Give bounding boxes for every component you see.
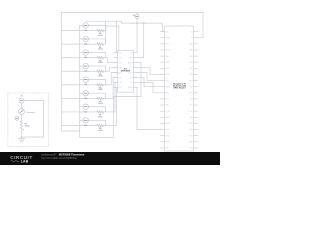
pin 3 SDA1 of J8: [161, 36, 170, 39]
pin 27 ID_SD of J8: [161, 111, 171, 113]
pin 1 3.3V of J8: [161, 31, 169, 33]
label TH3 value: [84, 57, 87, 59]
thermistor RT1: [19, 109, 25, 115]
pin 35 GP19 of J8: [161, 135, 170, 137]
pin 22 GP25 of J8: [189, 93, 198, 95]
wire CH2 tap: [106, 58, 118, 63]
wire rung rail to resistor R2: [62, 43, 98, 45]
wire node R4 to thermistor branch: [88, 66, 105, 71]
pin 30 GND of J8: [189, 117, 197, 119]
svg-text:GPIO Header: GPIO Header: [173, 87, 186, 89]
label R4: [98, 74, 103, 78]
resistor R7: [97, 111, 103, 113]
wire CH1 tap over the top: [106, 26, 119, 58]
pin 3 CH2 of IC1: [114, 62, 122, 64]
svg-text:10 kΩ: 10 kΩ: [98, 89, 103, 91]
pin 5 CH4 of IC1: [114, 72, 122, 74]
label TH1 value: [84, 30, 87, 32]
wire 3.3V top bus: [62, 13, 204, 38]
node junction 3.3V/VREF: [136, 22, 144, 23]
node footer bar: [0, 152, 220, 165]
pin 29 GPIO5 of J8: [161, 117, 171, 119]
wire CH6 tap: [106, 82, 118, 112]
wire R9 to ground: [21, 130, 23, 139]
label Thermistor 1: [26, 111, 36, 114]
pin 8 CH7 of IC1: [114, 87, 122, 89]
pin 13 GP27 of J8: [161, 68, 170, 70]
pin 9 GND of J8: [161, 56, 170, 58]
pin 26 CE1 of J8: [190, 105, 198, 107]
wire rung rail to resistor R7: [62, 111, 98, 113]
pin 31 GPIO6 of J8: [161, 123, 171, 125]
svg-text:10k: 10k: [84, 44, 87, 46]
wire RT1 to R9: [21, 115, 23, 122]
pin 8 TXD of J8: [190, 50, 198, 52]
wire V2 to RT1: [21, 103, 23, 109]
thermistor TH5 channel 4: [83, 77, 89, 83]
pin 28 ID_SC of J8: [188, 111, 197, 113]
wire thermistor TH2 to rail: [80, 38, 83, 40]
pin 4 CH3 of IC1: [114, 67, 122, 69]
svg-text:10k: 10k: [84, 125, 87, 127]
pin 7 CH6 of IC1: [114, 82, 122, 84]
pin 16 GP23 of J8: [189, 74, 198, 76]
wire DGND to header ground: [137, 87, 161, 129]
svg-text:MCP3008: MCP3008: [121, 70, 131, 72]
wire thermistor TH1 to rail: [80, 24, 83, 26]
svg-text:10 kΩ: 10 kΩ: [98, 76, 103, 78]
resistor R2: [97, 43, 103, 45]
svg-text:10k: 10k: [84, 111, 87, 113]
label R6: [98, 101, 103, 105]
resistor R9: [20, 121, 24, 130]
pin 32 GP12 of J8: [189, 123, 198, 125]
pin 21 MISO of J8: [161, 93, 171, 95]
svg-text:10k: 10k: [84, 84, 87, 86]
pin 15 GP22 of J8: [161, 74, 170, 76]
wire CH4 tap: [106, 73, 118, 85]
label TH5 value: [84, 84, 87, 86]
pin 15 VREF of IC1: [128, 57, 137, 59]
pin 25 GND of J8: [161, 105, 170, 107]
pin 10 RXD of J8: [189, 56, 197, 58]
pin 14 AGND of IC1: [128, 61, 137, 64]
svg-text:10 kΩ: 10 kΩ: [98, 35, 103, 37]
wire rung rail to resistor R1: [62, 30, 98, 32]
label IC1 MCP3008: [121, 68, 131, 72]
svg-text:10 kΩ: 10 kΩ: [98, 116, 103, 118]
svg-text:10k: 10k: [84, 98, 87, 100]
pin 14 GND of J8: [189, 68, 197, 70]
pin 37 GP26 of J8: [161, 141, 170, 143]
svg-text:Model B+ (J8): Model B+ (J8): [173, 85, 186, 87]
wire node R2 to thermistor branch: [88, 39, 105, 44]
label R9: [25, 124, 30, 128]
pin 5 SCL1 of J8: [161, 44, 170, 46]
thermistor TH7 channel 6: [83, 104, 89, 110]
label R7: [98, 115, 103, 119]
svg-text:10 kΩ: 10 kΩ: [98, 130, 103, 132]
pin 38 GP20 of J8: [189, 141, 198, 143]
thermistor TH6 channel 5: [83, 90, 89, 96]
resistor R6: [97, 97, 103, 99]
pin 16 VDD of IC1: [129, 53, 137, 55]
label TH4 value: [84, 71, 87, 73]
wire CH7 tap: [106, 87, 118, 125]
wire rung rail to resistor R3: [62, 57, 98, 59]
label TH7 value: [84, 111, 87, 113]
voltage source V2 5V: [19, 98, 24, 103]
wire inner return rail: [79, 25, 81, 131]
svg-text:10 kΩ: 10 kΩ: [25, 125, 30, 127]
wire thermistor TH6 to rail: [80, 92, 83, 94]
wire node R1 to thermistor branch: [88, 25, 105, 30]
pin 24 CE0 of J8: [190, 99, 198, 101]
pin 34 GND of J8: [189, 129, 197, 131]
pin 9 DGND of IC1: [128, 87, 137, 89]
node CircuitLab logo: [10, 155, 33, 163]
wire node R8 to thermistor branch: [88, 120, 105, 125]
wire thermistor TH4 to rail: [80, 65, 83, 67]
thermistor TH2 channel 1: [83, 36, 89, 42]
IC1 MCP3008 ADC: [117, 51, 133, 93]
pin 7 GPIO4 of J8: [161, 50, 171, 52]
resistor R1: [97, 29, 103, 31]
pin 2 5V of J8: [191, 31, 198, 33]
label TH2 value: [84, 44, 87, 46]
label R8: [98, 128, 103, 132]
U2 Raspberry Pi J8 GPIO header: [165, 26, 194, 151]
thermistor TH1 channel 0: [83, 23, 89, 29]
pin 39 GND of J8: [161, 148, 170, 150]
pin 13 CLK of IC1: [129, 67, 137, 69]
pin 12 DOUT of IC1: [128, 72, 137, 74]
thermistor TH3 channel 2: [83, 50, 89, 56]
pin 6 GND of J8: [189, 44, 197, 46]
wire node R5 to thermistor branch: [88, 80, 105, 85]
pin 19 MOSI of J8: [161, 86, 170, 88]
svg-text:10 kΩ: 10 kΩ: [98, 49, 103, 51]
resistor R3: [97, 57, 103, 59]
pin 2 CH1 of IC1: [114, 57, 122, 59]
pin 18 GP24 of J8: [189, 80, 198, 82]
wire node R3 to thermistor branch: [88, 53, 105, 58]
ground: [18, 139, 24, 142]
wire rung rail to resistor R5: [62, 84, 98, 86]
svg-text:10k: 10k: [84, 57, 87, 59]
wire CLK IC1 to header: [137, 68, 161, 75]
label R1: [98, 33, 103, 37]
wire rung rail to resistor R4: [62, 70, 98, 72]
pin 40 GP21 of J8: [189, 148, 198, 150]
svg-text:10 kΩ: 10 kΩ: [98, 62, 103, 64]
pin 10 CS of IC1: [130, 82, 137, 84]
wire left outer rail: [62, 13, 80, 132]
wire node R7 to thermistor branch: [88, 107, 105, 112]
wire thermistor TH5 to rail: [80, 79, 83, 81]
pin 11 GP17 of J8: [161, 62, 170, 64]
resistor R8: [97, 124, 103, 126]
wire rung rail to resistor R6: [62, 97, 98, 99]
wire CS IC1 to header: [137, 82, 161, 92]
wire CH5 tap: [106, 77, 118, 98]
pin 17 3.3V of J8: [161, 80, 169, 82]
label R5: [98, 87, 103, 91]
wire AGND return: [80, 63, 141, 138]
wire node R6 to thermistor branch: [88, 93, 105, 98]
pin 11 DIN of IC1: [130, 77, 137, 79]
resistor R4: [97, 70, 103, 72]
voltage source V1 5V supply: [135, 13, 139, 53]
pin 12 GP18 of J8: [189, 62, 198, 64]
svg-text:http://circuitlab.com/c/5k88f3: http://circuitlab.com/c/5k88f34e: [41, 156, 77, 160]
pin 33 GP13 of J8: [161, 129, 170, 131]
pin 36 GP16 of J8: [189, 135, 198, 137]
wire DIN IC1 to header: [137, 77, 161, 86]
wire DOUT IC1 to header: [137, 73, 161, 81]
node junction: [21, 136, 22, 137]
wire 3.3V run to header pin 1: [86, 21, 164, 31]
pin 20 GND of J8: [189, 86, 197, 88]
wire rung rail to resistor R8: [62, 125, 98, 127]
label V2 5V: [20, 96, 23, 98]
wire thermistor TH8 to rail: [80, 119, 83, 121]
resistor R5: [97, 84, 103, 86]
svg-text:LAB: LAB: [21, 160, 29, 164]
pin 4 5V of J8: [191, 37, 198, 39]
label R2: [98, 47, 103, 51]
wire VREF riser: [137, 23, 144, 58]
label V1 5V: [133, 15, 136, 17]
svg-text:10 kΩ: 10 kΩ: [98, 103, 103, 105]
thermistor TH4 channel 3: [83, 63, 89, 69]
label R3: [98, 60, 103, 64]
label TH6 value: [84, 98, 87, 100]
node footer text: [40, 153, 84, 160]
wire CH3 tap: [106, 68, 118, 72]
label Raspberry Pi header: [173, 83, 186, 89]
thermistor TH8 channel 7: [83, 118, 89, 124]
pin 1 CH0 of IC1: [114, 53, 122, 55]
pin 23 SCLK of J8: [161, 99, 170, 101]
node probe flag: [15, 116, 19, 120]
wire CH0 tap over the top: [106, 21, 118, 53]
wire thermistor TH3 to rail: [80, 52, 83, 54]
pin 6 CH5 of IC1: [114, 77, 122, 79]
label TH8 value: [84, 125, 87, 127]
svg-text:10k: 10k: [84, 71, 87, 73]
wire thermistor TH7 to rail: [80, 106, 83, 108]
svg-text:Raspberry Pi: Raspberry Pi: [173, 83, 186, 85]
svg-text:10k: 10k: [84, 30, 87, 32]
wire V2 loop: [22, 101, 44, 138]
node thermistor test cell box: [8, 93, 49, 146]
